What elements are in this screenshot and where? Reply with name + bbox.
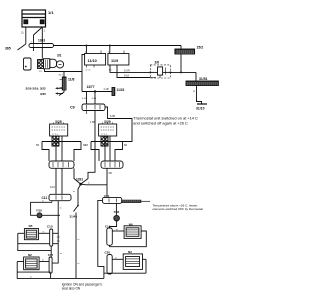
wire C14 to N6 <box>112 230 124 232</box>
connector pill 1363 <box>29 44 54 48</box>
svg-text:m: m <box>78 239 80 241</box>
wire relay to ground rail <box>170 71 196 73</box>
wire C11 to thermostat 7/10 <box>51 201 53 203</box>
svg-text:1-9: 1-9 <box>39 71 43 73</box>
svg-text:m: m <box>88 183 90 185</box>
seat unit 3/29 <box>99 120 117 146</box>
svg-text:2 1 4: 2 1 4 <box>86 70 92 72</box>
connector box left <box>24 58 32 70</box>
wire battery right down <box>41 27 43 44</box>
heater element N6 <box>124 222 141 238</box>
pill below 3/28 <box>49 161 74 168</box>
wire C10 right stub <box>53 232 59 234</box>
wire battery left down <box>25 27 27 44</box>
bracket 3/28 <box>42 142 49 162</box>
svg-text:11/8: 11/8 <box>68 78 75 82</box>
wire C20 to N3 <box>112 258 123 260</box>
ground rail 31/51 <box>186 72 218 85</box>
switch blade <box>59 92 64 96</box>
svg-text:7 7 1 4: 7 7 1 4 <box>101 134 108 136</box>
svg-text:4-1B: 4-1B <box>92 98 97 100</box>
svg-text:31: 31 <box>21 32 24 35</box>
connector 11/8 <box>62 77 66 90</box>
svg-text:6-GR: 6-GR <box>124 69 130 72</box>
wire C9 right to 3/29 <box>105 107 132 142</box>
svg-text:13/77: 13/77 <box>87 85 95 89</box>
svg-text:31/10: 31/10 <box>196 107 205 111</box>
svg-text:m: m <box>60 208 62 210</box>
svg-text:m: m <box>60 253 62 255</box>
relay 2/6 <box>149 61 171 78</box>
wire wrap N2 <box>17 262 104 279</box>
svg-text:365: 365 <box>5 47 11 51</box>
svg-text:C9: C9 <box>70 106 75 110</box>
wire C9 down long <box>94 111 96 171</box>
fuse box 11/9 <box>108 46 129 72</box>
bracket 3/29 <box>91 142 99 162</box>
splice 1391 <box>73 168 107 205</box>
thermostat 7/44 <box>114 203 120 221</box>
svg-text:m: m <box>73 191 75 193</box>
svg-text:6-5R: 6-5R <box>110 115 115 118</box>
wire switch 30 feed <box>45 55 86 72</box>
fuse 15/2 <box>175 46 203 73</box>
svg-text:1R: 1R <box>85 144 88 147</box>
wire lower under N5 <box>18 243 50 245</box>
svg-text:m: m <box>30 276 32 278</box>
battery 1/1 <box>22 10 54 27</box>
wire C11 pin down long <box>52 201 58 263</box>
wire to ground 3/65 <box>18 44 26 50</box>
wire 11/9 pin2 to relay lower <box>117 65 150 78</box>
svg-text:N2: N2 <box>28 253 32 257</box>
switch 31/46 <box>70 205 80 279</box>
wire bracket passenger <box>98 200 146 273</box>
svg-text:m: m <box>115 257 117 259</box>
svg-text:1: 1 <box>44 30 46 33</box>
wire pill to ignition switch <box>41 48 43 59</box>
heater element N2 <box>24 253 39 270</box>
fuse box 11/10 <box>85 46 106 72</box>
svg-text:3/18-3/19, 3/22: 3/18-3/19, 3/22 <box>26 87 47 91</box>
svg-text:seat also ON: seat also ON <box>62 287 81 291</box>
svg-text:C11: C11 <box>42 196 48 200</box>
wires to C9 <box>87 92 96 105</box>
svg-text:6R: 6R <box>124 144 127 147</box>
wire tail right <box>122 200 141 203</box>
ground 31/10 <box>193 86 207 111</box>
svg-text:elements switched OFF by therm: elements switched OFF by thermostat <box>153 207 204 211</box>
connector C9 <box>70 104 105 111</box>
wire wrap N6 <box>110 231 147 247</box>
heater element N3 <box>123 250 142 269</box>
wire thermostat to C10 <box>42 214 60 216</box>
connector C21 <box>103 194 122 204</box>
wire N2 to C17 <box>39 261 49 263</box>
ignition switch 3/1 <box>38 54 64 77</box>
svg-text:11/9: 11/9 <box>111 59 118 63</box>
wire wrap N5 <box>18 233 51 250</box>
svg-text:9-18: 9-18 <box>50 186 55 189</box>
node 13/77 <box>82 72 112 93</box>
pill below 3/29 <box>101 161 123 168</box>
svg-text:31/51: 31/51 <box>199 77 208 81</box>
svg-text:C10: C10 <box>47 225 53 229</box>
svg-text:m: m <box>42 201 44 203</box>
thermostat 7/10 <box>36 209 42 218</box>
connector C11 <box>42 194 72 200</box>
svg-text:m: m <box>78 263 80 265</box>
svg-text:30-7: 30-7 <box>59 74 64 76</box>
heater element N5 <box>24 224 38 240</box>
svg-text:m: m <box>193 90 195 93</box>
svg-text:5R: 5R <box>36 144 39 147</box>
wire stub <box>33 48 35 52</box>
svg-text:m: m <box>42 260 44 262</box>
wire 11/9 pin to relay <box>110 65 150 72</box>
seat unit 3/28 <box>50 120 68 146</box>
svg-text:11/23: 11/23 <box>117 88 125 92</box>
wire battery right diagonal <box>34 27 43 35</box>
svg-text:15/2: 15/2 <box>197 46 204 50</box>
svg-text:3/30: 3/30 <box>40 92 46 96</box>
svg-text:1363: 1363 <box>38 39 45 43</box>
main feed wire <box>54 45 182 47</box>
svg-text:m: m <box>43 231 45 233</box>
svg-text:3/1: 3/1 <box>57 54 62 58</box>
wire 3/29 down <box>106 168 108 197</box>
svg-text:11/10: 11/10 <box>88 59 97 63</box>
svg-text:6R: 6R <box>109 171 112 175</box>
svg-text:and switched off again at +26: and switched off again at +26 C <box>133 120 188 125</box>
wires pill to C11 <box>55 168 57 194</box>
wire N5 to C10 upper <box>39 232 50 234</box>
svg-text:m: m <box>116 229 118 231</box>
svg-text:4-1B: 4-1B <box>82 98 87 100</box>
svg-text:1.5B: 1.5B <box>90 121 95 124</box>
svg-text:4-1B: 4-1B <box>104 88 109 91</box>
svg-text:7 7 1 4: 7 7 1 4 <box>52 134 59 136</box>
wire wrap to N5 left <box>18 232 25 234</box>
svg-text:9-18: 9-18 <box>124 75 129 78</box>
svg-text:N5: N5 <box>29 224 33 228</box>
svg-text:7/10: 7/10 <box>36 209 42 213</box>
connector 11/23 <box>112 88 115 96</box>
svg-text:2/6: 2/6 <box>155 61 160 65</box>
svg-text:1/1: 1/1 <box>48 10 54 15</box>
